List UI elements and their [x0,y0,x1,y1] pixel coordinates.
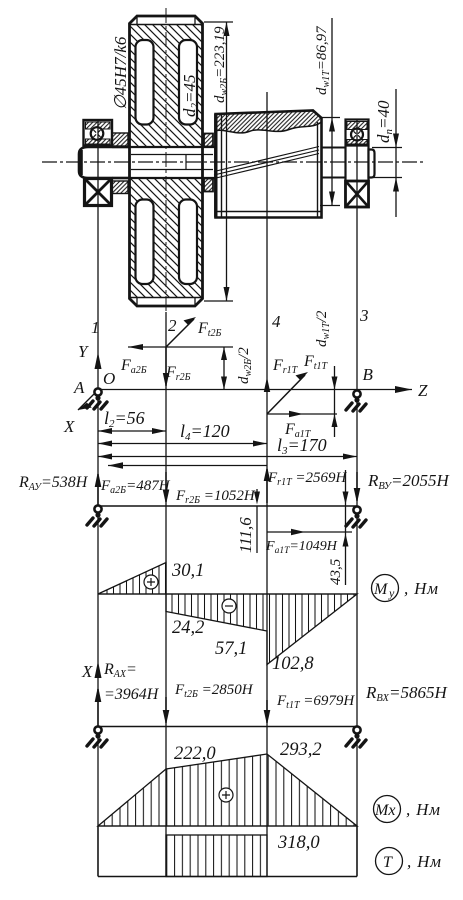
force Fa1T arrow [267,411,337,440]
My diagram label [372,575,439,602]
svg-text:dw2Б/2: dw2Б/2 [236,347,254,384]
T diagram label [376,848,442,875]
node A [73,378,85,397]
support B [346,390,366,411]
force Fr1T arrow [267,357,308,414]
Mx value 222,0 [174,744,216,764]
support B (horizontal plane) [346,726,366,747]
svg-text:l4=120: l4=120 [180,421,230,443]
svg-text:O: O [103,369,115,388]
svg-text:Fr1Т =2569Н: Fr1Т =2569Н [267,470,347,488]
node line 1 [97,119,99,876]
support A [87,388,107,409]
Mx value 293,2 [280,740,322,760]
minus sign My [222,599,236,613]
force Fa1T=1049H arrow [265,529,352,556]
gear z2 hatched section [129,25,203,298]
svg-text:Fа1Т=1049Н: Fа1Т=1049Н [265,539,338,556]
svg-text:Fа2Б: Fа2Б [120,357,147,376]
bevel pinion tooth contact lines [214,147,319,179]
svg-text:у: у [388,586,395,600]
svg-text:1: 1 [91,318,100,337]
dimension l4=120 [98,421,267,447]
My value 30,1 [171,561,204,581]
My diagram baseline [98,593,357,595]
torque T rectangle [166,835,267,877]
shaft centerline [42,161,425,163]
svg-text:X: X [63,417,75,436]
reaction RAY arrow [18,471,101,506]
force Fa2B=487H arrow [100,462,267,496]
force Fa2B arrow [120,344,147,376]
gear radius construction line [128,346,233,348]
svg-text:RВХ=5865Н: RВХ=5865Н [365,683,448,704]
torque diagram frame [98,826,357,877]
force Fr2B=1052H arrow [163,472,256,506]
svg-text:Ft1Т =6979Н: Ft1Т =6979Н [276,693,355,711]
dimension dw2B/2 [221,347,254,390]
svg-text:Fа2Б=487Н: Fа2Б=487Н [100,478,171,496]
label 2 [168,316,177,335]
svg-text:102,8: 102,8 [272,654,314,674]
dimension dw1T=86,97 [314,18,340,206]
plus sign Mx [219,788,233,802]
spacer between bearing and gear (lower) [112,181,128,194]
reaction RAX arrow [95,661,160,726]
node line 4 [266,92,268,876]
support A (horizontal plane) [87,726,107,747]
svg-text:Ft2Б: Ft2Б [197,320,222,339]
svg-text:Т: Т [383,854,393,871]
svg-text:111,6: 111,6 [236,517,255,553]
svg-text:, Нм: , Нм [406,800,441,819]
dimension 111,6 [236,489,260,553]
svg-text:Fr2Б =1052Н: Fr2Б =1052Н [175,488,256,506]
svg-text:A: A [73,378,85,397]
label 3 [359,306,369,325]
svg-text:Z: Z [418,381,428,400]
svg-text:57,1: 57,1 [215,639,247,659]
dimension dw2B=223,19 [204,22,233,301]
svg-text:318,0: 318,0 [277,833,320,853]
dimension dn=40 [372,89,402,217]
svg-text:dw1Т/2: dw1Т/2 [314,310,332,347]
svg-text:М: М [373,581,389,598]
force Fr2B arrow [163,347,191,388]
gear z2 outline [130,16,203,306]
svg-text:∅45H7/k6: ∅45H7/k6 [111,36,130,110]
svg-text:2: 2 [168,316,177,335]
svg-text:Ft1Т: Ft1Т [303,353,329,372]
dimension 43,5 [328,470,349,585]
label 1 [91,318,100,337]
label 4 [272,312,281,331]
My value 57,1 [215,639,247,659]
svg-text:RАУ=538Н: RАУ=538Н [18,474,89,493]
force Ft2B arrow [166,317,222,347]
svg-text:B: B [363,365,374,384]
svg-text:293,2: 293,2 [280,740,322,760]
bearing right (lower half, crossed box) [346,181,369,207]
svg-text:30,1: 30,1 [171,561,204,581]
svg-text:X: X [81,662,93,681]
svg-text:4: 4 [272,312,281,331]
dimension dw1T/2 [314,310,338,437]
My diagram positive area [98,563,166,595]
bevel pinion hatched top band [216,111,322,133]
plus sign My [144,575,158,589]
bearing right (upper half) [346,120,369,208]
svg-text:Мх: Мх [374,802,395,819]
My value 24,2 [172,618,204,638]
Y axis arrow [78,342,102,369]
svg-text:dп=40: dп=40 [374,100,395,143]
bearing left (upper half) [84,120,113,146]
svg-text:d2=45: d2=45 [180,75,201,117]
Z axis [98,381,428,400]
node line 2 [165,8,167,876]
key and keyway lines [131,155,213,170]
label diameter 45H7/k6 [111,36,130,110]
Mx diagram label [374,796,441,823]
beam (horizontal plane) [98,726,357,728]
svg-text:dw1Т=86,97: dw1Т=86,97 [314,25,332,95]
force Ft1T arrow [264,353,329,392]
My value 102,8 [272,654,314,674]
X axis [63,390,98,436]
support B (vertical plane) [346,506,366,527]
bevel pinion body [216,111,322,218]
svg-text:Y: Y [78,342,89,361]
X axis arrow (horizontal plane) [81,661,102,681]
label d2=45 [180,75,201,117]
svg-text:24,2: 24,2 [172,618,204,638]
svg-text:RВУ=2055Н: RВУ=2055Н [367,471,450,492]
svg-text:l3=170: l3=170 [277,435,327,457]
spacer between bearing and gear (upper) [112,133,128,146]
svg-text:43,5: 43,5 [328,558,344,585]
dimension l2=56 [98,408,166,434]
node line 3 [356,119,358,876]
svg-text:l2=56: l2=56 [104,408,145,430]
spacer between gear and pinion (lower) [204,179,213,192]
force Ft2B=2850H arrow [163,682,254,725]
svg-text:Fr1Т: Fr1Т [272,357,299,376]
svg-text:dw2Б=223,19: dw2Б=223,19 [212,26,230,103]
spacer between gear and pinion (upper) [204,134,213,147]
support A (vertical plane) [87,505,107,526]
shaft bore through gear [112,147,220,178]
reaction RBY arrow [354,471,451,503]
bearing left (lower half, crossed box) [85,179,112,206]
beam (vertical plane) [98,505,357,507]
svg-text:Ft2Б =2850Н: Ft2Б =2850Н [174,682,254,700]
svg-text:RАХ=: RАХ= [103,661,137,680]
svg-text:222,0: 222,0 [174,744,216,764]
node B [363,365,374,384]
shaft right end cap [369,150,375,178]
Mx diagram area [98,754,357,826]
reaction RBX label [365,683,448,704]
T value 318,0 [277,833,320,853]
node O origin [103,369,115,388]
dimension l3=170 [98,435,357,460]
shaft step right of pinion [322,148,346,178]
svg-text:=3964Н: =3964Н [104,686,160,703]
shaft left end [79,147,130,178]
svg-text:Fr2Б: Fr2Б [165,364,191,383]
Mx diagram baseline [98,825,357,827]
svg-text:, Нм: , Нм [407,852,442,871]
svg-text:3: 3 [359,306,369,325]
My diagram negative area [166,594,357,665]
force Ft1T=6979H arrow [264,693,356,725]
force Fr1T=2569H arrow [264,466,348,503]
svg-text:, Нм: , Нм [404,579,439,598]
